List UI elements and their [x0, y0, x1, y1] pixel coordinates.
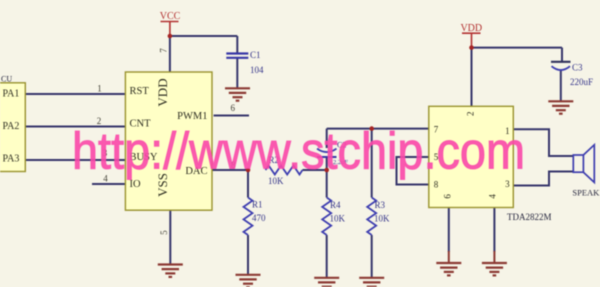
- svg-text:2: 2: [466, 112, 476, 117]
- svg-text:104: 104: [250, 65, 264, 75]
- svg-text:VDD: VDD: [460, 23, 482, 34]
- svg-text:470: 470: [252, 213, 266, 223]
- svg-text:http://www.stchip.com: http://www.stchip.com: [72, 123, 525, 181]
- svg-text:R4: R4: [330, 200, 341, 210]
- svg-text:7: 7: [159, 48, 169, 53]
- svg-text:220uF: 220uF: [570, 77, 593, 87]
- svg-text:PA1: PA1: [3, 88, 20, 99]
- svg-text:VDD: VDD: [155, 78, 170, 106]
- svg-text:PA3: PA3: [3, 153, 20, 164]
- svg-text:6: 6: [443, 194, 453, 199]
- svg-text:VCC: VCC: [160, 11, 181, 22]
- svg-text:4: 4: [488, 194, 498, 199]
- svg-text:8: 8: [434, 180, 439, 190]
- svg-text:6: 6: [231, 103, 236, 113]
- svg-text:IO: IO: [130, 179, 141, 190]
- svg-text:R1: R1: [252, 200, 263, 210]
- svg-text:1: 1: [97, 84, 102, 94]
- svg-text:10K: 10K: [374, 214, 390, 224]
- svg-text:R3: R3: [375, 200, 386, 210]
- svg-text:C1: C1: [250, 50, 261, 60]
- svg-text:C3: C3: [572, 63, 583, 73]
- svg-text:5: 5: [159, 230, 169, 235]
- svg-text:SPEAKER: SPEAKER: [572, 187, 600, 197]
- svg-text:3: 3: [505, 179, 510, 189]
- svg-text:PWM1: PWM1: [177, 111, 207, 122]
- svg-text:PA2: PA2: [3, 121, 20, 132]
- svg-text:TDA2822M: TDA2822M: [507, 212, 552, 222]
- svg-text:RST: RST: [130, 86, 150, 97]
- svg-text:CU: CU: [1, 75, 12, 84]
- svg-text:10K: 10K: [330, 214, 346, 224]
